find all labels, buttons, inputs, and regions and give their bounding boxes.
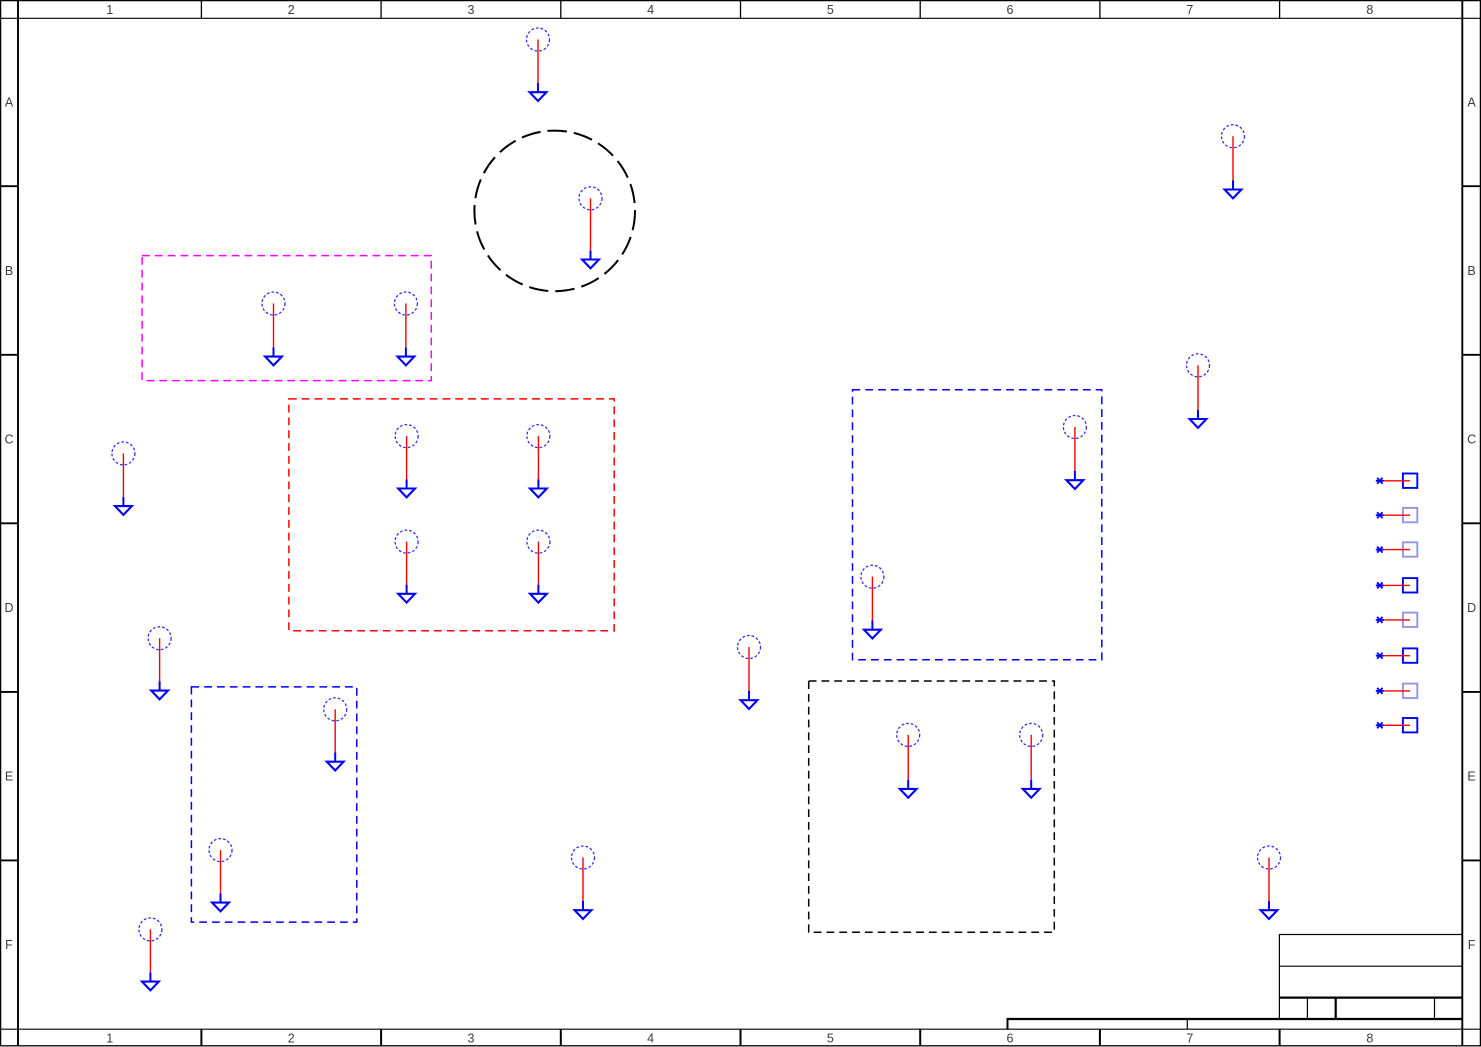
connector pin CN3	[1376, 542, 1418, 556]
ground flag GND14 with pin circle and wire	[148, 627, 171, 700]
ground stub S21	[1268, 901, 1270, 910]
svg-text:5: 5	[827, 3, 834, 17]
ground arrow A7	[115, 506, 132, 515]
svg-text:A: A	[5, 96, 14, 110]
svg-text:D: D	[1467, 601, 1476, 615]
ground arrow A20	[575, 910, 592, 919]
ground flag GND13 with pin circle and wire	[861, 565, 884, 638]
ground stub S8	[406, 479, 408, 488]
ground arrow A5	[398, 357, 415, 366]
svg-text:F: F	[1468, 938, 1476, 952]
column labels 1-8 top	[106, 3, 1373, 17]
pin square CN6	[1403, 648, 1417, 662]
column reference ticks	[201, 0, 1279, 1046]
pin circle P5	[394, 292, 417, 315]
revision table bottom rule	[1007, 1018, 1462, 1029]
pin star CN2	[1376, 512, 1384, 518]
ground arrow A9	[530, 489, 547, 498]
svg-text:8: 8	[1366, 3, 1373, 17]
wire W11	[406, 542, 408, 585]
ground arrow A17	[900, 789, 917, 798]
wire WC8	[1384, 724, 1411, 726]
group box B3 (blue dashed)	[853, 390, 1102, 660]
svg-text:7: 7	[1186, 3, 1193, 17]
ground flag GND8 with pin circle and wire	[395, 425, 418, 498]
svg-text:3: 3	[468, 3, 475, 17]
ground stub S14	[159, 681, 161, 690]
ground stub S22	[149, 972, 151, 981]
ground flag GND10 with pin circle and wire	[1063, 416, 1086, 490]
ground arrow A11	[398, 594, 415, 603]
wire W3	[590, 198, 592, 250]
pin star CN7	[1376, 688, 1384, 694]
ground arrow A15	[741, 700, 758, 709]
pin circle P2	[1222, 125, 1245, 148]
ground arrow A6	[1190, 419, 1207, 428]
group box B4 (blue dashed)	[191, 687, 356, 922]
wire WC6	[1384, 655, 1411, 657]
svg-text:4: 4	[647, 1032, 654, 1046]
ground arrow A13	[864, 630, 881, 639]
ground stub S19	[220, 893, 222, 902]
ground stub S10	[1074, 471, 1076, 480]
ground flag GND12 with pin circle and wire	[527, 530, 550, 603]
wire W15	[748, 647, 750, 691]
ground flag GND9 with pin circle and wire	[527, 425, 550, 498]
pin square CN5	[1403, 613, 1417, 627]
ground flag GND1 with pin circle and wire	[527, 28, 550, 101]
group box B2 (red dashed)	[289, 399, 614, 631]
connector pin CN2	[1376, 508, 1418, 522]
ground stub S5	[405, 347, 407, 356]
wire W8	[406, 436, 408, 479]
connector pin CN7	[1376, 684, 1418, 698]
ground stub S9	[537, 479, 539, 488]
pin circle P3	[579, 187, 602, 210]
ground stub S4	[273, 347, 275, 356]
pin circle P8	[395, 425, 418, 448]
connector pin CN4	[1376, 578, 1418, 592]
ground flag GND2 with pin circle and wire	[1222, 125, 1245, 199]
ground arrow A10	[1067, 480, 1084, 489]
ground stub S16	[334, 753, 336, 762]
wire W22	[149, 929, 151, 972]
svg-text:B: B	[1467, 264, 1475, 278]
svg-text:6: 6	[1007, 3, 1014, 17]
svg-text:6: 6	[1007, 1032, 1014, 1046]
wire W1	[537, 40, 539, 84]
ground arrow A2	[1225, 190, 1242, 199]
wire WC1	[1384, 480, 1411, 482]
ground flag GND3 with pin circle and wire	[579, 187, 602, 268]
ground arrow A1	[530, 92, 547, 101]
wire W10	[1074, 427, 1076, 471]
ground flag GND22 with pin circle and wire	[139, 918, 162, 991]
connector pin CN1	[1376, 474, 1418, 488]
pin circle P20	[572, 846, 595, 869]
ground arrow A4	[265, 357, 282, 366]
pin square CN1	[1403, 474, 1417, 488]
pin square CN8	[1403, 718, 1417, 732]
ground stub S12	[537, 585, 539, 594]
ground arrow A19	[212, 903, 229, 912]
ground stub S3	[590, 250, 592, 259]
wire W7	[122, 453, 124, 497]
wire W18	[1030, 735, 1032, 780]
ground stub S6	[1197, 410, 1199, 419]
wire W20	[582, 858, 584, 902]
wire W12	[537, 542, 539, 585]
wire W19	[220, 850, 222, 893]
wire WC5	[1384, 619, 1411, 621]
ground flag GND17 with pin circle and wire	[897, 723, 920, 797]
ground stub S17	[907, 780, 909, 789]
ground stub S2	[1232, 180, 1234, 189]
svg-text:B: B	[5, 264, 13, 278]
ground flag GND18 with pin circle and wire	[1020, 723, 1043, 797]
wire W6	[1197, 365, 1199, 410]
ground flag GND11 with pin circle and wire	[395, 530, 418, 603]
wire W2	[1232, 136, 1234, 180]
wire W4	[273, 304, 275, 348]
connector pin CN5	[1376, 613, 1418, 627]
pin square CN4	[1403, 578, 1417, 592]
pin circle P1	[527, 28, 550, 51]
ground arrow A16	[327, 762, 344, 771]
row reference ticks	[0, 186, 1481, 860]
ground flag GND20 with pin circle and wire	[572, 846, 595, 919]
pin circle P16	[324, 698, 347, 721]
ground stub S11	[406, 585, 408, 594]
ground flag GND7 with pin circle and wire	[112, 442, 135, 515]
svg-text:F: F	[5, 938, 13, 952]
pin circle P19	[209, 839, 232, 862]
pin square CN3	[1403, 542, 1417, 556]
wire W21	[1268, 858, 1270, 902]
wire W9	[537, 436, 539, 479]
svg-text:1: 1	[106, 1032, 113, 1046]
pin circle P22	[139, 918, 162, 941]
pin star CN6	[1376, 653, 1384, 659]
group box B1 (magenta dashed)	[142, 256, 431, 381]
pin circle P6	[1187, 354, 1210, 377]
ground arrow A22	[142, 982, 159, 991]
pin circle P11	[395, 530, 418, 553]
wire W16	[334, 709, 336, 752]
ground arrow A18	[1023, 789, 1040, 798]
wire WC3	[1384, 549, 1411, 551]
connector pin CN6	[1376, 648, 1418, 662]
ground flag GND4 with pin circle and wire	[262, 292, 285, 365]
svg-text:3: 3	[468, 1032, 475, 1046]
pin circle P13	[861, 565, 884, 588]
ground arrow A3	[582, 260, 599, 269]
ground flag GND6 with pin circle and wire	[1187, 354, 1210, 428]
ground flag GND5 with pin circle and wire	[394, 292, 417, 365]
svg-text:C: C	[1467, 433, 1476, 447]
svg-text:E: E	[1467, 770, 1475, 784]
wire W13	[871, 577, 873, 621]
svg-text:5: 5	[827, 1032, 834, 1046]
svg-text:7: 7	[1186, 1032, 1193, 1046]
svg-text:2: 2	[288, 3, 295, 17]
ground arrow A12	[530, 594, 547, 603]
ground arrow A21	[1261, 910, 1278, 919]
wire W14	[159, 638, 161, 681]
pin star CN8	[1376, 722, 1384, 728]
pin circle P14	[148, 627, 171, 650]
svg-text:D: D	[4, 601, 13, 615]
wire W5	[405, 304, 407, 348]
pin circle P17	[897, 723, 920, 746]
title block	[1279, 935, 1462, 1020]
svg-text:2: 2	[288, 1032, 295, 1046]
wire WC4	[1384, 584, 1411, 586]
wire WC2	[1384, 514, 1411, 516]
pin circle P9	[527, 425, 550, 448]
pin circle P10	[1063, 416, 1086, 439]
wire W17	[907, 735, 909, 780]
svg-text:4: 4	[647, 3, 654, 17]
ground flag GND15 with pin circle and wire	[738, 636, 761, 710]
ground stub S20	[582, 901, 584, 910]
pin circle P21	[1258, 846, 1281, 869]
svg-text:C: C	[4, 433, 13, 447]
row labels A-F left	[4, 96, 13, 953]
pin circle P4	[262, 292, 285, 315]
ground stub S18	[1030, 780, 1032, 789]
group circle C1 (black dashed)	[474, 131, 635, 292]
svg-text:E: E	[5, 770, 13, 784]
pin circle P7	[112, 442, 135, 465]
connector pin CN8	[1376, 718, 1418, 732]
row labels A-F right	[1467, 96, 1476, 953]
pin star CN1	[1376, 478, 1384, 484]
pin star CN4	[1376, 582, 1384, 588]
ground flag GND19 with pin circle and wire	[209, 839, 232, 912]
group box B5 (black dashed)	[809, 681, 1055, 932]
ground stub S13	[871, 621, 873, 630]
pin star CN3	[1376, 547, 1384, 553]
column labels 1-8 bottom	[106, 1032, 1373, 1046]
svg-text:A: A	[1467, 96, 1476, 110]
svg-text:8: 8	[1366, 1032, 1373, 1046]
svg-text:1: 1	[106, 3, 113, 17]
pin star CN5	[1376, 617, 1384, 623]
ground stub S1	[537, 83, 539, 92]
pin circle P15	[738, 636, 761, 659]
wire WC7	[1384, 690, 1411, 692]
ground arrow A14	[151, 691, 168, 700]
ground arrow A8	[398, 489, 415, 498]
ground stub S15	[748, 691, 750, 700]
pin circle P18	[1020, 723, 1043, 746]
pin square CN7	[1403, 684, 1417, 698]
ground flag GND16 with pin circle and wire	[324, 698, 347, 771]
ground flag GND21 with pin circle and wire	[1258, 846, 1281, 919]
ground stub S7	[122, 497, 124, 506]
pin circle P12	[527, 530, 550, 553]
pin square CN2	[1403, 508, 1417, 522]
